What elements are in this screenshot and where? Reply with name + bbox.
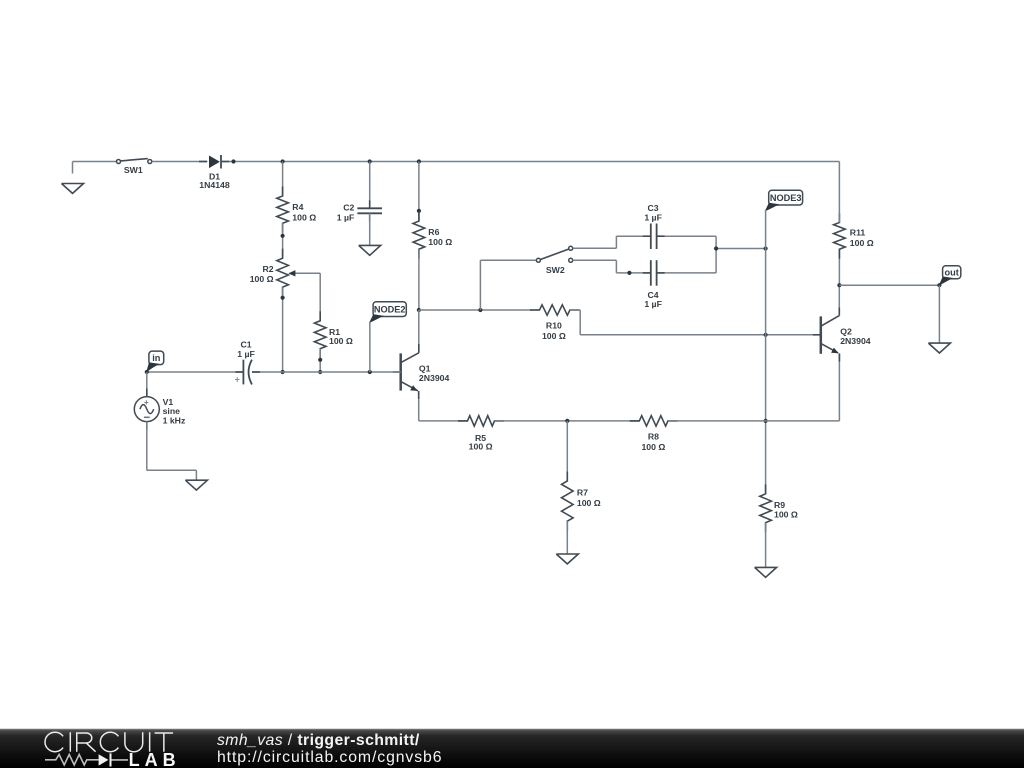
svg-text:C1: C1 xyxy=(240,340,251,350)
svg-text:out: out xyxy=(945,268,959,278)
svg-text:100 Ω: 100 Ω xyxy=(641,442,665,452)
svg-text:R8: R8 xyxy=(648,432,659,442)
svg-text:R11: R11 xyxy=(850,228,866,238)
svg-text:SW1: SW1 xyxy=(124,165,143,175)
svg-text:1 µF: 1 µF xyxy=(237,349,255,359)
svg-text:R2: R2 xyxy=(262,264,273,274)
svg-text:http://circuitlab.com/cgnvsb6: http://circuitlab.com/cgnvsb6 xyxy=(217,749,442,766)
svg-text:100 Ω: 100 Ω xyxy=(850,238,874,248)
svg-text:1 µF: 1 µF xyxy=(644,299,662,309)
svg-text:1 µF: 1 µF xyxy=(337,213,355,223)
svg-text:R7: R7 xyxy=(577,488,588,498)
svg-text:100 Ω: 100 Ω xyxy=(292,212,316,222)
svg-text:NODE2: NODE2 xyxy=(374,304,406,314)
svg-text:LAB: LAB xyxy=(129,750,181,768)
svg-text:R4: R4 xyxy=(292,202,303,212)
svg-text:100 Ω: 100 Ω xyxy=(469,442,493,452)
svg-text:100 Ω: 100 Ω xyxy=(577,498,601,508)
svg-text:R9: R9 xyxy=(774,500,785,510)
svg-text:Q2: Q2 xyxy=(840,326,852,336)
svg-text:2N3904: 2N3904 xyxy=(840,336,871,346)
svg-text:100 Ω: 100 Ω xyxy=(774,510,798,520)
svg-text:+: + xyxy=(235,374,240,384)
svg-text:R10: R10 xyxy=(546,320,562,330)
svg-text:C2: C2 xyxy=(343,203,354,213)
svg-text:in: in xyxy=(152,353,161,363)
svg-text:100 Ω: 100 Ω xyxy=(250,274,274,284)
svg-text:100 Ω: 100 Ω xyxy=(428,237,452,247)
svg-text:R6: R6 xyxy=(428,227,439,237)
svg-text:smh_vas / trigger-schmitt/: smh_vas / trigger-schmitt/ xyxy=(217,732,420,749)
svg-text:+: + xyxy=(144,398,149,407)
svg-text:100 Ω: 100 Ω xyxy=(542,331,566,341)
svg-text:1 µF: 1 µF xyxy=(644,213,662,223)
svg-text:1N4148: 1N4148 xyxy=(199,180,230,190)
svg-text:2N3904: 2N3904 xyxy=(419,373,450,383)
svg-text:NODE3: NODE3 xyxy=(770,193,802,203)
svg-text:100 Ω: 100 Ω xyxy=(329,336,353,346)
svg-text:1 kHz: 1 kHz xyxy=(163,416,186,426)
svg-text:sine: sine xyxy=(163,406,181,416)
svg-text:SW2: SW2 xyxy=(546,265,565,275)
